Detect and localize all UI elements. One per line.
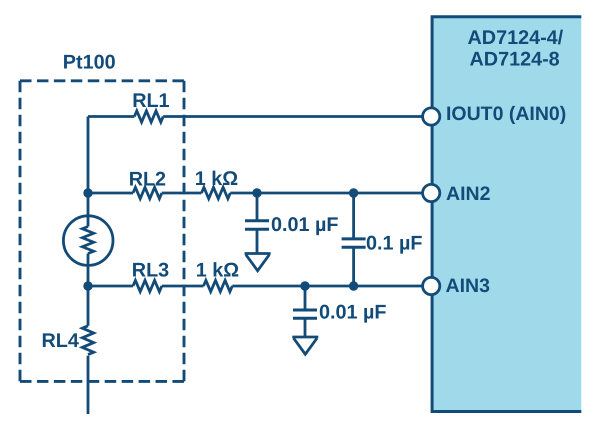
svg-text:0.01 µF: 0.01 µF [319, 302, 386, 324]
svg-text:0.01 µF: 0.01 µF [271, 214, 338, 236]
svg-text:AIN3: AIN3 [446, 275, 491, 297]
svg-text:0.1 µF: 0.1 µF [366, 232, 422, 254]
svg-text:RL3: RL3 [132, 260, 169, 282]
svg-text:1 kΩ: 1 kΩ [195, 168, 238, 190]
svg-text:AD7124-4/: AD7124-4/ [468, 27, 564, 49]
svg-text:RL4: RL4 [42, 330, 79, 352]
svg-text:Pt100: Pt100 [63, 51, 116, 73]
svg-text:RL2: RL2 [129, 168, 166, 190]
svg-text:AD7124-8: AD7124-8 [470, 49, 560, 71]
svg-text:IOUT0 (AIN0): IOUT0 (AIN0) [446, 103, 566, 125]
svg-text:RL1: RL1 [132, 90, 169, 112]
svg-text:1 kΩ: 1 kΩ [196, 260, 239, 282]
svg-text:AIN2: AIN2 [446, 183, 491, 205]
